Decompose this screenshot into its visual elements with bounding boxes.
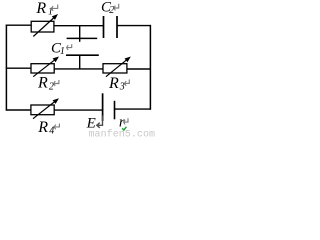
wire: left rail (5, 25, 7, 111)
label C1 (51, 41, 65, 57)
wire: top rail right segment (C2 to right rail) (117, 25, 151, 27)
svg-text:2: 2 (49, 81, 54, 92)
paragraph mark after r (124, 118, 128, 124)
wire: bottom rail left segment (6, 109, 31, 111)
svg-text:R: R (37, 119, 48, 136)
paragraph mark after R4 (54, 124, 59, 130)
resistor R2 (variable) (31, 57, 59, 77)
label r (119, 114, 125, 130)
svg-text:2: 2 (109, 5, 114, 16)
paragraph mark after E (large) (97, 115, 103, 128)
wire: bottom rail right segment (battery to right rail) (115, 108, 152, 110)
battery E,r : short plate (114, 101, 116, 120)
paragraph mark after R1 (52, 5, 58, 11)
wire: middle rail right segment (R3 to right rail) (127, 68, 151, 70)
wire: C1 lower stub to middle rail (79, 55, 81, 69)
wire: top rail middle segment (R1 to C2) (54, 25, 104, 27)
label R1 (35, 0, 53, 17)
label E (86, 116, 96, 132)
paragraph mark after R2 (54, 80, 59, 86)
paragraph mark after C2 (114, 4, 119, 11)
resistor R4 (variable) (31, 98, 59, 119)
svg-text:manfen5.com: manfen5.com (89, 128, 156, 137)
svg-text:1: 1 (60, 46, 65, 57)
label R4 (37, 119, 54, 137)
resistor R1 (variable) (31, 14, 58, 37)
watermark manfen5.com (89, 127, 156, 141)
wire: top rail left segment (6, 24, 32, 26)
paragraph mark after C1 (67, 44, 72, 50)
svg-text:3: 3 (119, 81, 125, 92)
wire: right rail (149, 25, 151, 110)
wire: bottom rail middle segment (R4 to battery) (54, 109, 102, 111)
svg-text:R: R (37, 75, 48, 92)
svg-text:R: R (35, 0, 46, 17)
resistor R3 (variable) (103, 57, 131, 77)
label R2 (37, 75, 54, 93)
svg-text:R: R (108, 75, 119, 92)
wire: middle rail left segment (6, 67, 32, 69)
paragraph mark after R3 (125, 80, 130, 86)
battery E,r : long plate (102, 93, 104, 121)
svg-text:4: 4 (49, 125, 54, 136)
wire: C1 upper stub from top rail (79, 25, 81, 42)
label C2 (101, 0, 114, 16)
capacitor C1 (66, 38, 99, 55)
label R3 (108, 75, 125, 92)
capacitor C2 (104, 16, 118, 38)
wire: middle rail center segment (R2 to R3) (54, 68, 103, 70)
